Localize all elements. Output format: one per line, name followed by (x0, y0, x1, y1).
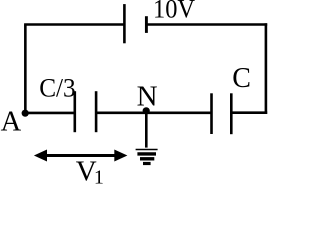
svg-text:C/3: C/3 (39, 74, 75, 103)
wire: middle horizontal from capacitor C/3 to node N (96, 112, 145, 115)
battery 10V: short plate (145, 16, 148, 33)
svg-text:C: C (232, 63, 251, 94)
svg-text:1: 1 (94, 166, 104, 184)
wire: middle horizontal from node A to capacitor C/3 (25, 112, 74, 115)
wire: top right horizontal from battery to right corner (146, 23, 267, 26)
capacitor C/3: left plate (74, 91, 77, 132)
node A junction dot (22, 110, 29, 117)
ground: bar 3 (140, 157, 154, 160)
wire: top left horizontal to battery (24, 23, 124, 26)
svg-text:A: A (1, 107, 22, 138)
label C (232, 63, 251, 94)
capacitor C: left plate (210, 93, 213, 134)
node N junction dot (143, 107, 150, 114)
ground: bar 2 (137, 152, 156, 155)
label A (1, 107, 22, 138)
label C/3 (39, 74, 75, 103)
label 10V (153, 0, 195, 24)
wire: right vertical (265, 23, 268, 114)
svg-text:10V: 10V (153, 0, 195, 24)
label V1 (76, 156, 104, 189)
wire: left vertical from top-left corner down to node A (24, 25, 27, 114)
V1 dimension arrow (double-headed) (34, 150, 128, 162)
ground: stem wire from node N (145, 112, 148, 147)
battery 10V: long plate (123, 4, 126, 43)
capacitor C: right plate (230, 93, 233, 134)
ground: top thin line (136, 149, 158, 151)
svg-text:N: N (137, 80, 158, 112)
wire: middle horizontal from node N to capacitor C (145, 112, 211, 115)
wire: middle right horizontal from capacitor C to right corner (231, 111, 267, 114)
capacitor C/3: right plate (95, 91, 98, 132)
label N (137, 80, 158, 112)
ground: bar 4 (143, 162, 151, 165)
